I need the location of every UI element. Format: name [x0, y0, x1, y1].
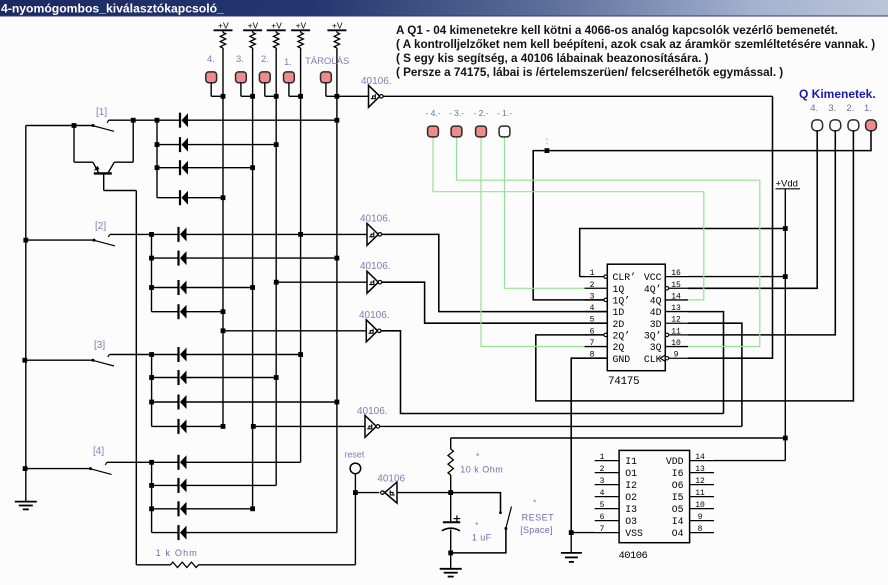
svg-text:16: 16 [671, 269, 681, 278]
left common bus wire [25, 126, 27, 502]
indicator connector - 2.- [476, 126, 487, 137]
wire U1B output to pin4 1D [382, 234, 607, 311]
node matrix junction [298, 232, 303, 237]
Q output connector 4. [812, 120, 823, 131]
node matrix junction [221, 309, 226, 314]
svg-text:VSS: VSS [625, 528, 643, 539]
pin 16 stub 74175 [665, 269, 688, 278]
svg-text:2.: 2. [261, 54, 269, 65]
wire column from R3 [275, 48, 277, 485]
wire +Vdd rail [784, 189, 786, 461]
stray dots [546, 139, 548, 141]
svg-text:40106.: 40106. [360, 261, 391, 272]
pushbutton 4. [206, 72, 223, 96]
svg-text:+V: +V [248, 21, 259, 31]
svg-text:1.: 1. [864, 103, 872, 114]
diode D13 [152, 455, 301, 470]
+V supply symbol 3 [267, 21, 286, 31]
diode D10 [152, 370, 277, 385]
svg-text:( S egy kis segítség, a 40106: ( S egy kis segítség, a 40106 lábainak b… [396, 52, 709, 65]
svg-text:2: 2 [590, 281, 595, 290]
svg-text:VCC: VCC [644, 272, 662, 283]
node group4 row2 [149, 483, 154, 488]
pushbutton TÁROLÁS [321, 72, 337, 96]
wire bus top to switch 1 [26, 125, 74, 127]
wire switch1 row [133, 119, 157, 121]
resistor R7 1k [136, 562, 355, 567]
wire U1E output to pin12 3D [380, 425, 742, 427]
svg-text:I6: I6 [672, 468, 684, 479]
wire CLR pullup [580, 229, 786, 277]
svg-text:GND: GND [613, 354, 631, 365]
svg-text:5: 5 [600, 501, 605, 510]
wire column from R2 [252, 48, 254, 509]
diode D5 [152, 227, 301, 242]
ground (left bus) [15, 502, 37, 510]
svg-text:4D: 4D [650, 307, 662, 318]
wire Q1 to pin3 [533, 131, 871, 300]
capacitor C1 1uF [442, 493, 460, 553]
svg-text:40106.: 40106. [359, 310, 390, 321]
pushbutton 1. [284, 72, 301, 96]
node matrix junction [250, 165, 255, 170]
node 10k +Vdd [783, 436, 788, 441]
pin 14 stub 74175 [665, 292, 688, 301]
svg-text:+V: +V [218, 21, 229, 31]
pin 8 stub 74175 [585, 351, 608, 360]
node group1 row1 [155, 118, 160, 123]
diode D3 [157, 160, 253, 175]
svg-text:3Q: 3Q [650, 342, 662, 353]
svg-text:O1: O1 [625, 468, 637, 479]
resistor R6 10k [448, 438, 453, 493]
node GND VSS [569, 530, 574, 535]
diode D6 [152, 251, 337, 266]
op-amp U1E inverter 40106 [365, 415, 380, 437]
node matrix junction [335, 400, 340, 405]
resistor R2 pull-up [250, 30, 255, 48]
node group3 row2 [149, 375, 154, 380]
svg-text:3Q’: 3Q’ [644, 331, 662, 342]
+V supply symbol 2 [243, 21, 262, 31]
wire row to inverter U1B [301, 233, 367, 235]
node matrix junction [335, 256, 340, 261]
svg-text:( A kontrolljelzőket nem kell: ( A kontrolljelzőket nem kell beépíteni,… [396, 38, 875, 51]
node group1 row2 [155, 142, 160, 147]
pin 4 stub 40106 [595, 489, 619, 498]
pin 3 stub 74175 [585, 292, 604, 301]
wire pin16 VCC to +Vdd [688, 276, 785, 278]
Q output connector 3. [830, 120, 841, 131]
pin inversion bubble [665, 287, 668, 290]
op-amp U1B inverter 40106 [367, 223, 382, 245]
wire diode column group3 [151, 355, 153, 427]
svg-text:40106: 40106 [619, 550, 648, 562]
diode D1 [157, 113, 337, 128]
+Vdd label [776, 179, 801, 190]
svg-text:1Q’: 1Q’ [613, 296, 631, 307]
switch [2] [26, 234, 152, 246]
pin 7 stub 40106 [595, 525, 619, 534]
wire U1F input to RC node [397, 492, 451, 494]
wire base to 1k resistor column [104, 190, 137, 192]
node switch1 collector junction [131, 118, 136, 123]
pin 5 stub 74175 [585, 316, 608, 325]
svg-text:- 3.-: - 3.- [449, 108, 464, 118]
node bus switch2 [23, 238, 28, 243]
svg-text:4: 4 [600, 489, 605, 498]
wire pin1 CLR stub join [580, 276, 585, 278]
svg-text:1 uF: 1 uF [472, 533, 492, 543]
pin 11 stub 40106 [690, 489, 714, 498]
svg-text:[4]: [4] [93, 446, 104, 457]
svg-text:74175: 74175 [608, 376, 639, 388]
wire TAROLAS to inverter U1A [337, 95, 369, 97]
indicator connector - 4.- [428, 126, 439, 137]
wire Q2 to pin6 [536, 131, 854, 401]
svg-text:TÁROLÁS: TÁROLÁS [305, 56, 349, 67]
wire pin9 CLK [688, 96, 773, 358]
svg-text:[Space]: [Space] [520, 525, 553, 535]
wire pin12 riser [688, 323, 742, 426]
svg-text:11: 11 [695, 489, 705, 498]
wire green indicator 3 to 3Q [457, 137, 760, 347]
svg-text:6: 6 [600, 513, 605, 522]
svg-text:- 4.-: - 4.- [425, 108, 440, 118]
pin 14 stub 40106 [690, 453, 714, 462]
wire green indicator 2 to 2Q [481, 137, 585, 347]
wire reset stem [354, 474, 356, 493]
svg-text:4-nyomógombos_kiválasztókapcso: 4-nyomógombos_kiválasztókapcsoló_ [1, 2, 224, 16]
clock wedge pin9 [660, 355, 665, 361]
node matrix junction [298, 352, 303, 357]
svg-text:5: 5 [590, 316, 595, 325]
wire column from R5 [336, 48, 338, 533]
svg-text:+V: +V [271, 21, 282, 31]
pushbutton 2. [259, 72, 276, 96]
svg-text:2: 2 [600, 465, 605, 474]
node bus switch4 [23, 466, 28, 471]
svg-text:12: 12 [671, 316, 681, 325]
pin 3 stub 40106 [595, 477, 619, 486]
wire VSS stub join [571, 532, 595, 534]
diode D7 [152, 280, 253, 295]
node tap inverter U1D input [221, 328, 226, 333]
pin 5 stub 40106 [595, 501, 619, 510]
svg-text:I5: I5 [672, 492, 684, 503]
svg-text:- 2.-: - 2.- [473, 108, 488, 118]
resistor R1 pull-up [220, 30, 225, 48]
svg-text:Q Kimenetek.: Q Kimenetek. [799, 87, 876, 101]
wire diode column group1 [156, 120, 158, 198]
node on Q1 wire [545, 148, 550, 153]
svg-text:10 k Ohm: 10 k Ohm [460, 465, 503, 475]
switch [4] [25, 462, 152, 474]
node bus switch3 [22, 358, 27, 363]
svg-text:I4: I4 [672, 516, 684, 527]
svg-text:7: 7 [600, 525, 605, 534]
node RC [448, 490, 453, 495]
node group2 row2 [149, 256, 154, 261]
reset connector [350, 463, 361, 474]
svg-text:I1: I1 [625, 456, 637, 467]
op-amp U1D inverter 40106 [366, 320, 381, 342]
op-amp U1A inverter 40106 [369, 85, 384, 107]
pin 4 stub 74175 [585, 304, 608, 313]
svg-text:reset: reset [344, 450, 365, 460]
pin inversion bubble [604, 275, 607, 278]
svg-text:VDD: VDD [666, 456, 684, 467]
pin inversion bubble [604, 298, 607, 301]
pin 13 stub 40106 [690, 465, 714, 474]
svg-text:O4: O4 [672, 528, 684, 539]
svg-text:40106.: 40106. [360, 214, 391, 225]
wire U1D output to pin13 4D [381, 331, 723, 414]
node group4 row3 end [250, 506, 255, 511]
wire column from R1 [222, 48, 224, 426]
pin 6 stub 40106 [595, 513, 619, 522]
wire to inverter U1D [223, 330, 366, 332]
node group2 row1 [149, 232, 154, 237]
wire GND down [570, 533, 572, 553]
node matrix junction [221, 195, 226, 200]
op-amp U3 40106 IC body [619, 450, 690, 542]
node emitter junction [72, 123, 77, 128]
node button 1. tap [298, 94, 303, 99]
node tap inverter U1E input [251, 424, 256, 429]
wire 10k to +Vdd [451, 437, 786, 439]
svg-text:13: 13 [671, 304, 681, 313]
wire to inverter U1C [276, 281, 367, 283]
node tap inverter U1C input [274, 280, 279, 285]
node button TÁROLÁS tap [335, 94, 340, 99]
op-amp U1C inverter 40106 [367, 271, 382, 293]
wire Q4 to pin15 [688, 131, 817, 289]
svg-text:2Q: 2Q [613, 342, 625, 353]
diode D12 [152, 419, 223, 434]
pin 6 stub 74175 [585, 327, 604, 336]
pin 10 stub 40106 [690, 501, 714, 510]
wire green indicator 1 to 1Q [505, 138, 585, 289]
svg-text:I3: I3 [625, 504, 637, 515]
node matrix junction [274, 375, 279, 380]
svg-text:+V: +V [332, 21, 343, 31]
Q output connector 2. [848, 120, 859, 131]
resistor R5 pull-up [334, 30, 339, 48]
svg-text:I2: I2 [625, 480, 637, 491]
svg-text:2D: 2D [613, 319, 625, 330]
resistor R4 pull-up [298, 30, 303, 48]
op-amp U2 74175 IC body [607, 264, 665, 371]
svg-text:14: 14 [671, 292, 681, 301]
svg-text:[2]: [2] [95, 221, 106, 232]
node button 2. tap [274, 94, 279, 99]
svg-text:CLK: CLK [644, 354, 662, 365]
svg-text:+V: +V [296, 21, 307, 31]
svg-text:+Vdd: +Vdd [776, 179, 798, 190]
node cap bottom [448, 551, 453, 556]
indicator connector - 1.- [499, 126, 510, 137]
svg-text:1.: 1. [284, 57, 292, 68]
ground (capacitor) [440, 569, 462, 577]
pin 12 stub 40106 [690, 477, 714, 486]
svg-text:3D: 3D [650, 319, 662, 330]
pin inversion bubble [665, 357, 668, 360]
svg-text:3.: 3. [828, 103, 836, 114]
pin 7 stub 74175 [585, 339, 608, 348]
ground (logic ICs) [561, 553, 582, 562]
wire cap bottom to ground [450, 553, 452, 569]
svg-text:3.: 3. [236, 54, 244, 65]
pin 13 stub 74175 [665, 304, 688, 313]
svg-text:( Persze a 74175, lábai is /ér: ( Persze a 74175, lábai is /értelemszerü… [396, 66, 783, 79]
diode D8 [152, 304, 224, 319]
Q output connector 1. [866, 120, 877, 131]
pin 12 stub 74175 [665, 316, 688, 325]
wire U1C output to pin5 2D [382, 282, 607, 323]
node matrix junction [221, 424, 226, 429]
node group4 row1 [149, 460, 154, 465]
svg-text:15: 15 [671, 281, 681, 290]
svg-text:3: 3 [600, 477, 605, 486]
pushbutton 3. [236, 72, 253, 96]
node matrix junction [250, 285, 255, 290]
pin inversion bubble [665, 333, 668, 336]
pin 8 stub 40106 [690, 525, 714, 534]
indicator connector - 3.- [451, 126, 462, 137]
svg-text:8: 8 [698, 525, 703, 534]
svg-text:O5: O5 [672, 504, 684, 515]
svg-text:2.: 2. [846, 103, 854, 114]
wire pin8 GND [571, 358, 607, 532]
pin 10 stub 74175 [665, 339, 688, 348]
wire diode column group2 [151, 234, 153, 311]
pin 15 stub 74175 [669, 281, 688, 290]
diode D2 [157, 137, 276, 152]
diode D9 [152, 347, 301, 362]
+V supply symbol 4 [291, 21, 310, 31]
svg-text:RESET: RESET [522, 513, 555, 523]
svg-text:4Q: 4Q [650, 296, 662, 307]
svg-text:O3: O3 [625, 516, 637, 527]
diode D11 [152, 395, 337, 410]
svg-text:1: 1 [600, 453, 605, 462]
pin 1 stub 40106 [595, 453, 619, 462]
pin 11 stub 74175 [669, 327, 688, 336]
diode D15 [152, 501, 253, 516]
svg-text:9: 9 [674, 351, 679, 360]
wire pin13 riser [688, 312, 724, 414]
svg-text:O2: O2 [625, 492, 637, 503]
svg-text:1D: 1D [613, 307, 625, 318]
switch [3] [25, 355, 152, 367]
svg-text:4.: 4. [207, 54, 215, 65]
node VCC +Vdd [783, 274, 788, 279]
wire U1F output [355, 492, 379, 494]
wire green indicator 4 to 4Q [433, 137, 704, 300]
pin inversion bubble [604, 333, 607, 336]
svg-text:4.: 4. [810, 103, 818, 114]
svg-text:10: 10 [695, 501, 705, 510]
node matrix junction [335, 118, 340, 123]
pin 9 stub 74175 [669, 351, 688, 360]
svg-text:7: 7 [590, 339, 595, 348]
svg-text:- 1.-: - 1.- [497, 108, 512, 118]
wire to inverter U1E [253, 425, 365, 427]
svg-text:4: 4 [590, 304, 595, 313]
wire VDD pin14 to +Vdd [714, 460, 785, 462]
+V supply symbol 5 [327, 21, 346, 31]
svg-text:[3]: [3] [94, 340, 105, 351]
switch [1] [74, 120, 133, 131]
pin 2 stub 74175 [585, 281, 608, 290]
svg-text:1: 1 [590, 269, 595, 278]
resistor R3 pull-up [274, 30, 279, 48]
node group3 row3 [149, 400, 154, 405]
svg-text:4Q’: 4Q’ [644, 284, 662, 295]
svg-text:14: 14 [695, 453, 705, 462]
svg-text:11: 11 [671, 327, 681, 336]
pin 1 stub 74175 [585, 269, 604, 278]
svg-text:13: 13 [695, 465, 705, 474]
node button 3. tap [250, 94, 255, 99]
diode D4 [157, 190, 223, 205]
diode D16 [152, 525, 337, 540]
node group1 row3 [155, 165, 160, 170]
svg-text:O6: O6 [672, 480, 684, 491]
node CLR +Vdd [783, 226, 788, 231]
pin 2 stub 40106 [595, 465, 619, 474]
svg-text:CLR’: CLR’ [613, 272, 637, 283]
svg-text:40106.: 40106. [357, 406, 388, 417]
svg-text:12: 12 [695, 477, 705, 486]
node group2 row3 [149, 285, 154, 290]
svg-text:9: 9 [698, 513, 703, 522]
svg-text:[1]: [1] [96, 107, 107, 118]
node button 4. tap [221, 94, 226, 99]
node matrix junction [274, 142, 279, 147]
wire diode column group4 [151, 462, 153, 532]
pin 9 stub 40106 [690, 513, 714, 522]
svg-text:40106.: 40106. [361, 76, 392, 87]
wire column from R4 [300, 48, 302, 462]
svg-text:10: 10 [671, 339, 681, 348]
svg-text:1Q: 1Q [613, 284, 625, 295]
transistor Q1 [74, 120, 133, 190]
svg-text:2Q’: 2Q’ [613, 331, 631, 342]
node group3 row1 [149, 352, 154, 357]
node reset junction [353, 490, 358, 495]
svg-text:1 k Ohm: 1 k Ohm [156, 548, 198, 558]
node group4 row3 [149, 506, 154, 511]
RESET switch [451, 493, 512, 553]
diode D14 [152, 478, 277, 493]
svg-text:40106: 40106 [377, 474, 405, 485]
wire reset node down to 1k [354, 493, 356, 565]
+V supply symbol 1 [214, 21, 233, 31]
svg-text:A Q1 - 04 kimenetekre kell köt: A Q1 - 04 kimenetekre kell kötni a 4066-… [396, 24, 838, 37]
window title bar [0, 0, 888, 16]
op-amp U1F inverter 40106 (reset) [381, 482, 397, 503]
wire U1A output to CLK column [383, 95, 772, 97]
wire Q3 to pin11 [688, 131, 835, 335]
